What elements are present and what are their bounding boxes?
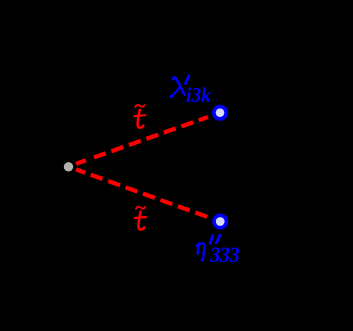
label eta double-prime 333 (bottom coupling, blue) [197, 235, 220, 260]
double prime stroke 2 [216, 235, 220, 243]
label stop t-tilde (top, red) [134, 105, 145, 128]
node C (bottom vertex, blue circle with light core) [212, 214, 228, 230]
eta right leg descender [202, 247, 205, 261]
t stem and hook [138, 212, 144, 230]
node A (source vertex, gray dot) [64, 162, 73, 171]
eta entry hook [197, 243, 200, 246]
eta left leg [198, 243, 199, 253]
t crossbar [134, 115, 145, 116]
double prime stroke 1 [210, 236, 213, 244]
tilde [136, 207, 145, 209]
lambda leg [171, 88, 180, 96]
svg-text:333: 333 [209, 242, 239, 267]
label lambda prime i3k (top coupling, blue) [170, 76, 189, 97]
label stop t-tilde (bottom, red) [135, 207, 146, 230]
wire (dashed stop propagator to top vertex) [76, 117, 208, 164]
lambda main diagonal [173, 77, 185, 94]
prime [186, 76, 189, 84]
svg-text:i3k: i3k [186, 84, 211, 107]
wire (dashed stop propagator to bottom vertex) [76, 169, 208, 217]
tilde [135, 105, 144, 107]
t crossbar [135, 217, 146, 218]
t stem and hook [138, 110, 144, 128]
lambda leg foot [170, 95, 172, 97]
eta arch [198, 243, 204, 247]
node B (top vertex, blue circle with light core) [212, 105, 228, 121]
